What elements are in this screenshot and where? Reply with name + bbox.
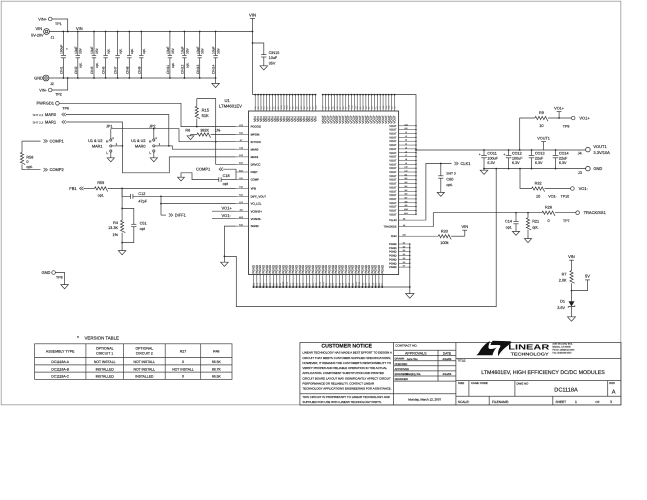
U1 right VOUT pins (399, 125, 416, 127)
net label VO1+ on VOSNS+ (212, 210, 236, 212)
svg-text:6.3V: 6.3V (512, 161, 520, 165)
svg-text:D3: D3 (403, 249, 405, 252)
svg-text:INSTALLED: INSTALLED (96, 375, 115, 379)
svg-text:NOT INSTALL: NOT INSTALL (134, 367, 156, 371)
test point TP8 (GND) (52, 271, 56, 275)
wire SGND down to ground net (224, 226, 235, 256)
svg-text:VERIFY PROPER AND RELIABLE OPE: VERIFY PROPER AND RELIABLE OPERATION IN … (302, 366, 387, 370)
svg-text:CO13: CO13 (535, 152, 545, 156)
svg-text:VOUT: VOUT (389, 175, 397, 178)
test point TP6 (PWRGD1) (56, 102, 60, 106)
Linear Technology logo (491, 341, 512, 357)
svg-text:VOUT: VOUT (389, 140, 397, 143)
svg-text:+: + (66, 47, 68, 51)
svg-text:CIN6: CIN6 (102, 66, 106, 74)
svg-text:E10: E10 (355, 281, 358, 286)
capacitor CIN3 (93, 32, 95, 56)
svg-text:CIRCUIT 1: CIRCUIT 1 (96, 351, 113, 355)
svg-text:35V: 35V (217, 47, 221, 54)
svg-text:Milpitas, CA 95035: Milpitas, CA 95035 (552, 346, 571, 349)
svg-text:PGND: PGND (389, 251, 397, 254)
svg-text:RUN: RUN (391, 235, 397, 238)
svg-text:CIN11: CIN11 (166, 65, 170, 74)
svg-text:VOUT: VOUT (389, 163, 397, 166)
svg-text:OF: OF (595, 400, 599, 404)
svg-text:VOUT: VOUT (389, 213, 397, 216)
svg-text:CIN7: CIN7 (114, 66, 118, 74)
capacitor CIN11 (169, 32, 171, 56)
svg-text:SHT 2,3: SHT 2,3 (33, 121, 44, 125)
ground below JP1 (107, 158, 114, 162)
svg-text:2.0K: 2.0K (559, 278, 567, 282)
resistor R59 opt (84, 187, 95, 189)
wire PWRGD1 to PGOOD (59, 103, 236, 126)
svg-text:VO_LCL: VO_LCL (251, 202, 262, 206)
svg-text:M5: M5 (405, 189, 408, 192)
svg-text:VOUT: VOUT (389, 167, 397, 170)
svg-text:DIFF_VOUT: DIFF_VOUT (251, 194, 267, 198)
svg-text:100uF: 100uF (487, 156, 498, 160)
wire COMP1 to COMP pin (223, 169, 236, 179)
resistor R26 0 (542, 211, 555, 216)
svg-text:L2: L2 (405, 135, 407, 138)
svg-text:VOUT: VOUT (389, 133, 397, 136)
svg-text:COMP2: COMP2 (50, 167, 65, 172)
svg-text:M11: M11 (404, 212, 408, 215)
svg-text:1: 1 (575, 400, 577, 404)
svg-text:1%: 1% (215, 128, 221, 132)
svg-text:opt.: opt. (446, 183, 452, 187)
wire TRACK/SS to R26 (433, 213, 542, 227)
svg-text:J1: J1 (50, 35, 54, 39)
svg-text:opt.: opt. (95, 62, 99, 68)
svg-text:COMP1: COMP1 (196, 167, 211, 172)
svg-text:opt.: opt. (26, 165, 32, 169)
capacitor CIN9 (140, 32, 142, 56)
svg-text:SIZE: SIZE (458, 381, 464, 385)
svg-text:10uF: 10uF (196, 46, 200, 54)
svg-text:PGND: PGND (380, 264, 384, 274)
svg-text:CO14: CO14 (559, 152, 569, 156)
svg-text:VIN+: VIN+ (38, 17, 47, 21)
svg-text:1%: 1% (113, 233, 119, 237)
svg-text:PERFORMANCE OR RELIABILITY. C: PERFORMANCE OR RELIABILITY. CONTACT LINE… (302, 382, 374, 386)
svg-text:R27: R27 (180, 349, 186, 353)
svg-text:Wanjing Xia: Wanjing Xia (406, 372, 421, 376)
svg-text:PGND: PGND (389, 243, 397, 246)
svg-text:VOUT1: VOUT1 (593, 144, 607, 149)
svg-text:VO1+: VO1+ (579, 115, 590, 120)
svg-text:FSET: FSET (251, 170, 258, 174)
svg-text:R15: R15 (202, 107, 210, 112)
svg-text:CIN3: CIN3 (90, 66, 94, 74)
wire MAR0 net (66, 115, 169, 146)
svg-text:VOUT: VOUT (389, 148, 397, 151)
svg-text:opt.: opt. (532, 225, 538, 229)
svg-text:47pF: 47pF (138, 200, 147, 204)
svg-text:CIN12: CIN12 (181, 64, 185, 74)
test point TP7 (TRACK/SS1) (576, 211, 580, 215)
svg-text:CLK1: CLK1 (461, 161, 472, 166)
wire C18 to ground (181, 173, 219, 180)
U1 top VIN bus wire (253, 94, 316, 96)
svg-text:VO1+: VO1+ (554, 107, 565, 111)
svg-text:L8: L8 (405, 158, 407, 161)
svg-text:0: 0 (26, 160, 28, 164)
capacitor CIN1 (62, 32, 64, 56)
ground below R4 (118, 251, 126, 255)
svg-text:35V: 35V (201, 47, 205, 54)
test point TP9 (VO1+) (571, 116, 575, 120)
svg-text:M2: M2 (405, 177, 408, 180)
svg-text:U1 & U2: U1 & U2 (131, 139, 145, 143)
svg-text:VIN: VIN (568, 254, 575, 259)
svg-text:VOUT: VOUT (389, 136, 397, 139)
svg-text:MAR0: MAR0 (135, 145, 146, 149)
svg-text:GND: GND (593, 166, 602, 171)
svg-text:opt.: opt. (107, 48, 111, 54)
test point TP1 (VIN+) (48, 17, 52, 21)
wire to R9 (520, 118, 535, 150)
wire PLLIN to CLK1 (426, 164, 452, 221)
svg-text:VOUT1: VOUT1 (537, 137, 550, 141)
capacitor CO13 22uF (531, 149, 533, 151)
svg-text:M1: M1 (405, 173, 408, 176)
svg-text:VOUT: VOUT (389, 171, 397, 174)
capacitor C14 opt (515, 212, 517, 214)
net flag VOUT1 (543, 142, 545, 150)
svg-text:SHT 2,3: SHT 2,3 (33, 113, 44, 117)
svg-text:CIRCUIT BOARD LAYOUT MAY SIGNI: CIRCUIT BOARD LAYOUT MAY SIGNIFICANTLY A… (302, 376, 391, 380)
node CLK1 arrow (456, 162, 458, 165)
capacitor CIN6 (105, 32, 107, 56)
svg-text:NOT INSTALL: NOT INSTALL (172, 367, 194, 371)
svg-text:PGND: PGND (389, 258, 397, 261)
resistor R4 13.3K 1% (121, 188, 123, 220)
svg-text:INTVCC: INTVCC (251, 140, 261, 144)
svg-text:L11: L11 (404, 170, 407, 173)
svg-text:6.3V: 6.3V (559, 161, 567, 165)
svg-text:10uF: 10uF (74, 46, 78, 54)
svg-text:DC1118A-B: DC1118A-B (51, 367, 69, 371)
svg-text:51K: 51K (202, 113, 209, 118)
capacitor CIN13 (199, 32, 201, 56)
svg-text:66.5K: 66.5K (212, 360, 222, 364)
svg-text:M7: M7 (405, 196, 408, 199)
svg-text:Monday, March 12, 2007: Monday, March 12, 2007 (408, 398, 441, 402)
svg-text:L10: L10 (404, 166, 407, 169)
svg-text:APPLICATION. COMPONENT SUBSTI: APPLICATION. COMPONENT SUBSTITUTION AND … (302, 371, 383, 375)
node COMP1 arrow left (22, 140, 41, 142)
svg-text:NOT INSTALL: NOT INSTALL (94, 360, 116, 364)
svg-text:22uF: 22uF (535, 156, 544, 160)
svg-text:10uF: 10uF (212, 46, 216, 54)
ground below JP2 (150, 158, 157, 162)
svg-text:CONTRACT NO.: CONTRACT NO. (395, 344, 417, 348)
wire SGND to output ground rail (224, 169, 496, 307)
capacitor CIN2 (77, 32, 79, 56)
svg-text:PGND: PGND (389, 266, 397, 269)
svg-text:6.3V: 6.3V (487, 161, 495, 165)
svg-text:LINEAR TECHNOLOGY HAS MADE A B: LINEAR TECHNOLOGY HAS MADE A BEST EFFORT… (302, 351, 391, 355)
svg-text:10: 10 (536, 195, 540, 199)
svg-text:35V: 35V (79, 47, 83, 54)
svg-text:R21: R21 (532, 220, 539, 224)
svg-text:VOUT: VOUT (389, 194, 397, 197)
svg-text:10uF: 10uF (90, 46, 94, 54)
svg-text:0: 0 (182, 360, 184, 364)
svg-text:J2: J2 (50, 82, 54, 86)
capacitor C12 47pF (122, 188, 131, 196)
svg-text:TP10: TP10 (561, 195, 570, 199)
svg-text:VOUT: VOUT (389, 144, 397, 147)
svg-text:A8: A8 (403, 217, 405, 220)
svg-text:REV: REV (609, 381, 615, 385)
svg-text:D1: D1 (403, 242, 405, 245)
svg-text:0: 0 (547, 219, 549, 223)
svg-text:22uF: 22uF (559, 156, 568, 160)
svg-text:DRAWN: DRAWN (395, 358, 405, 361)
svg-text:SHT 3: SHT 3 (446, 171, 455, 175)
svg-text:R33: R33 (441, 229, 448, 233)
U1 top VOUT pins (322, 95, 324, 111)
net flag VO1+ (558, 117, 560, 119)
svg-text:SUPPLIED FOR USE WITH LINEAR T: SUPPLIED FOR USE WITH LINEAR TECHNOLOGY … (302, 400, 381, 404)
svg-text:88.7K: 88.7K (212, 367, 222, 371)
resistor R7 2.0K (570, 271, 575, 284)
svg-text:M6: M6 (405, 193, 408, 196)
svg-text:A11: A11 (404, 127, 407, 130)
diode D1 3.6V zener (571, 291, 573, 302)
svg-text:Phone: (408)432-1900: Phone: (408)432-1900 (552, 349, 575, 352)
ground at C18 (178, 177, 185, 181)
wire TP2 to ground bus (52, 78, 68, 90)
svg-text:0: 0 (182, 375, 184, 379)
svg-text:CO11: CO11 (487, 152, 496, 156)
svg-text:CIN13: CIN13 (196, 64, 200, 74)
svg-text:TP2: TP2 (55, 92, 62, 96)
svg-text:1630 McCarthy Blvd.: 1630 McCarthy Blvd. (552, 343, 573, 346)
svg-text:R7: R7 (562, 273, 567, 277)
svg-text:R32: R32 (535, 181, 542, 185)
svg-text:TP7: TP7 (563, 219, 570, 223)
svg-text:MAR1: MAR1 (45, 120, 57, 125)
svg-text:VOUT: VOUT (389, 156, 397, 159)
svg-text:NOT INSTALL: NOT INSTALL (134, 360, 156, 364)
ground below C14 (512, 231, 519, 235)
svg-text:SHEET: SHEET (556, 400, 567, 404)
U1 top VIN pins (254, 95, 256, 111)
connector J3 GND (586, 166, 591, 171)
svg-text:*: * (77, 336, 79, 342)
svg-text:VIN: VIN (76, 26, 83, 31)
svg-text:TP6: TP6 (62, 107, 69, 111)
svg-text:M4: M4 (405, 185, 408, 188)
svg-text:D6: D6 (403, 261, 405, 264)
capacitor C51 opt (122, 208, 134, 224)
svg-text:CIN15: CIN15 (269, 51, 280, 55)
svg-text:VOUT: VOUT (389, 183, 397, 186)
svg-text:R59: R59 (97, 181, 104, 185)
svg-text:C60: C60 (446, 177, 453, 181)
svg-text:THIS CIRCUIT IS PROPRIETARY TO: THIS CIRCUIT IS PROPRIETARY TO LINEAR TE… (302, 395, 389, 399)
wire to R32 (520, 169, 532, 189)
svg-text:INSTALLED: INSTALLED (96, 367, 115, 371)
svg-text:VOUT: VOUT (389, 202, 397, 205)
svg-text:opt.: opt. (185, 62, 189, 68)
resistor R9 10 (535, 116, 548, 121)
svg-text:CIN9: CIN9 (137, 66, 141, 74)
svg-text:10uF: 10uF (181, 46, 185, 54)
ground below C60 (437, 192, 444, 196)
svg-text:392K: 392K (200, 128, 209, 132)
svg-text:MPGM: MPGM (251, 133, 260, 137)
svg-text:JP2: JP2 (149, 125, 156, 129)
svg-text:TITLE: TITLE (457, 358, 465, 362)
svg-text:+: + (503, 152, 505, 156)
capacitor CIN14 (215, 32, 217, 56)
svg-text:opt.: opt. (142, 48, 146, 54)
svg-text:A12: A12 (404, 123, 407, 126)
svg-text:R4: R4 (113, 221, 118, 225)
svg-text:D10: D10 (282, 281, 285, 286)
svg-text:HOWEVER, IT REMAINS THE CUSTOM: HOWEVER, IT REMAINS THE CUSTOMER'S RESPO… (302, 361, 391, 365)
capacitor CIN12 (183, 32, 185, 56)
svg-text:JP1: JP1 (106, 125, 113, 129)
svg-text:GND: GND (34, 75, 43, 80)
svg-text:opt: opt (140, 227, 146, 231)
wire TP1 to VIN bus (52, 19, 68, 32)
svg-text:R26: R26 (545, 206, 552, 210)
svg-text:FB1: FB1 (69, 186, 77, 191)
svg-text:DC1118A-A: DC1118A-A (51, 360, 69, 364)
svg-text:C14: C14 (505, 220, 512, 224)
capacitor CO11 100uF (483, 149, 485, 151)
svg-text:PGOOD: PGOOD (251, 125, 261, 129)
svg-text:CHECKED: CHECKED (395, 363, 408, 366)
svg-text:VO1-: VO1- (579, 186, 589, 191)
svg-text:VOUT: VOUT (389, 198, 397, 201)
svg-text:GND: GND (42, 270, 51, 275)
svg-text:PWRGD1: PWRGD1 (36, 101, 54, 106)
svg-text:DC1118A-C: DC1118A-C (51, 375, 69, 379)
svg-text:D1: D1 (560, 300, 565, 304)
ground below CO11 (483, 169, 485, 171)
U1 bottom PGND pins (253, 275, 255, 288)
svg-text:H10: H10 (319, 281, 322, 286)
capacitor CIN7 (117, 32, 119, 56)
svg-text:MAR0: MAR0 (45, 112, 57, 117)
svg-text:CIN14: CIN14 (212, 64, 216, 74)
node DIFF1 arrow (171, 213, 173, 216)
ground below R21 (524, 239, 531, 243)
svg-text:R9: R9 (539, 111, 544, 115)
capacitor CO12 100uF (508, 149, 510, 151)
wire H rail to INTVCC (111, 129, 236, 142)
wire output ground rail (484, 168, 586, 170)
svg-text:CIRCUIT 2: CIRCUIT 2 (136, 351, 153, 355)
svg-text:D5: D5 (403, 257, 405, 260)
svg-text:A10: A10 (402, 234, 405, 237)
wire TP8 to ground (55, 273, 64, 285)
svg-text:opt.: opt. (79, 62, 83, 68)
svg-text:PGND: PGND (389, 255, 397, 258)
svg-text:M10: M10 (404, 208, 408, 211)
svg-text:opt: opt (223, 182, 229, 186)
svg-text:CIN2: CIN2 (74, 66, 78, 74)
svg-text:C12: C12 (138, 192, 145, 196)
svg-text:VOUT: VOUT (389, 210, 397, 213)
connector J1 (VIN 5V-20V) (44, 29, 50, 35)
svg-text:APPROVALS: APPROVALS (405, 352, 427, 356)
svg-text:opt.: opt. (119, 48, 123, 54)
svg-text:TP9: TP9 (563, 124, 570, 128)
svg-text:VOUT: VOUT (389, 206, 397, 209)
svg-text:5V-20V: 5V-20V (31, 34, 44, 38)
capacitor C18 opt (218, 177, 220, 182)
resistor R58 0 opt (21, 141, 23, 152)
svg-text:35V: 35V (185, 47, 189, 54)
svg-text:TECHNOLOGY APPLICATIONS ENGINE: TECHNOLOGY APPLICATIONS ENGINEERING FOR … (302, 387, 391, 391)
wire J2 ground bus (49, 77, 216, 79)
svg-text:A: A (612, 390, 616, 396)
svg-text:VO1+: VO1+ (222, 206, 233, 211)
svg-text:C51: C51 (140, 221, 147, 225)
wire J1 to VIN bus (49, 31, 252, 33)
svg-text:LINEAR: LINEAR (508, 343, 550, 352)
capacitor C60 opt (440, 163, 442, 165)
svg-text:opt.: opt. (130, 48, 134, 54)
svg-text:VOUT: VOUT (393, 115, 397, 124)
connector J4 VOUT1 (586, 147, 591, 152)
svg-text:opt.: opt. (98, 194, 104, 198)
svg-text:CIRCUIT THAT MEETS CUSTOMER-SU: CIRCUIT THAT MEETS CUSTOMER-SUPPLIED SPE… (302, 356, 391, 360)
capacitor CIN15 (253, 43, 264, 55)
ground below CIN14 (215, 78, 217, 83)
net flag VIN at R33 (464, 230, 466, 236)
svg-text:L: L (149, 151, 151, 155)
svg-text:VOUT: VOUT (389, 159, 397, 162)
svg-text:6.3V: 6.3V (535, 161, 543, 165)
svg-text:J4: J4 (578, 152, 582, 156)
svg-text:6/14/06: 6/14/06 (443, 373, 452, 376)
svg-text:VO1-: VO1- (222, 213, 232, 218)
svg-text:ASSEMBLY TYPE: ASSEMBLY TYPE (46, 349, 75, 353)
svg-text:R46: R46 (213, 349, 219, 353)
connector J2 (GND) (43, 75, 49, 81)
title block frame (300, 343, 621, 406)
svg-text:3.6V: 3.6V (557, 306, 565, 310)
svg-text:L4: L4 (405, 143, 407, 146)
svg-text:APPROVED: APPROVED (395, 368, 410, 371)
svg-text:10uF: 10uF (166, 46, 170, 54)
svg-text:+: + (479, 152, 481, 156)
svg-text:M9: M9 (405, 204, 408, 207)
wire DIFF_VOUT to VO_LCL and DIFF1 (160, 196, 162, 215)
svg-text:opt.: opt. (506, 225, 512, 229)
svg-text:INSTALLED: INSTALLED (135, 375, 154, 379)
svg-text:13.3K: 13.3K (108, 226, 118, 230)
ground at SGND (221, 262, 229, 266)
U1 left pins (236, 126, 249, 128)
svg-text:U1 & U2: U1 & U2 (88, 139, 102, 143)
svg-text:VIN: VIN (461, 224, 468, 229)
svg-text:COMP: COMP (251, 178, 260, 182)
svg-text:150uF: 150uF (60, 45, 64, 54)
svg-text:100uF: 100uF (512, 156, 523, 160)
svg-text:M3: M3 (405, 181, 408, 184)
U1 right PLLIN pin (399, 219, 426, 221)
